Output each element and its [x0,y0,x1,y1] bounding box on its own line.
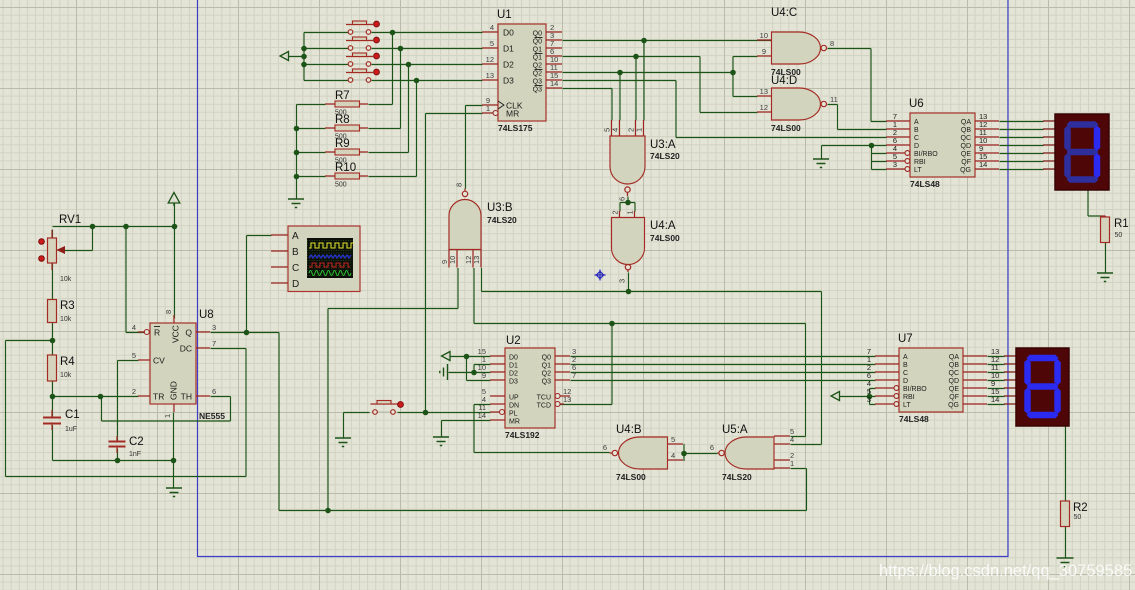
svg-text:TR: TR [153,392,164,402]
svg-text:R7: R7 [335,90,350,102]
svg-text:D3: D3 [503,76,514,86]
svg-text:VCC: VCC [171,325,181,343]
svg-text:3: 3 [618,279,627,283]
wire pulldown verticals to R7-R10 [369,33,417,177]
wire U1 MR to U2 PL [426,114,483,413]
svg-text:B: B [292,247,299,258]
wire U2 outputs to U7 ABCD [571,357,876,381]
svg-text:74LS48: 74LS48 [899,414,929,424]
svg-text:R10: R10 [335,162,356,174]
svg-text:D1: D1 [509,363,518,370]
svg-text:QA: QA [961,119,971,126]
svg-text:RBI: RBI [903,394,915,401]
wire net Q1B row56 to U3:A.2 and U4:D.12 [563,57,758,121]
input terminal arrow (U2 D0) [442,352,451,361]
svg-text:9: 9 [762,47,766,56]
svg-text:4: 4 [132,323,136,332]
svg-text:R3: R3 [60,300,75,312]
svg-text:TCU: TCU [537,395,551,402]
resistor R3 [48,300,75,324]
wire net Q0B row40 to U3:A.1 and U4:C.10 [563,41,772,121]
watermark [879,562,1132,580]
svg-text:12: 12 [760,103,768,112]
wire button2 to U2 PL [344,413,491,439]
sheet border [198,0,1009,557]
svg-text:14: 14 [991,395,999,404]
svg-text:10: 10 [448,256,457,264]
svg-text:13: 13 [563,395,571,404]
svg-text:U1: U1 [497,9,512,21]
svg-text:1: 1 [626,210,635,214]
svg-text:3: 3 [867,395,871,404]
svg-text:R2: R2 [1073,502,1088,514]
wire left rail TH sense [6,341,53,477]
wire 555 Q net to osc A and row510 [211,236,807,511]
potentiometer RV1 [39,214,81,283]
svg-text:5: 5 [671,435,675,444]
wire U7 arrow RBI BI LT [840,389,876,405]
svg-text:Q: Q [185,328,192,338]
svg-text:Q0: Q0 [533,31,542,38]
svg-text:U3:A: U3:A [650,139,676,151]
svg-text:U4:C: U4:C [771,7,797,19]
resistor R4 [48,355,76,381]
svg-text:TCD: TCD [537,403,551,410]
svg-text:B: B [903,362,908,369]
wire button outputs to U1 D0-D3 [372,33,483,81]
svg-text:74LS175: 74LS175 [498,123,533,133]
decoder U7 74LS48 [867,333,1000,424]
svg-text:4: 4 [671,451,675,460]
svg-text:D0: D0 [509,355,518,362]
svg-text:50: 50 [1115,232,1123,239]
svg-text:QF: QF [961,159,971,166]
svg-text:RV1: RV1 [59,214,81,226]
svg-text:R: R [154,328,160,338]
wire U4:C out to U6.A [828,49,887,122]
wire 555 DC to left rail [6,349,247,477]
svg-text:1nF: 1nF [129,451,141,458]
resistor R9 [325,138,368,165]
wire U4:D out to U6.B [828,105,887,130]
svg-text:LT: LT [903,402,911,409]
input terminal arrow left (buttons common) [280,52,289,61]
svg-text:Q3: Q3 [542,379,551,386]
svg-text:Q2: Q2 [533,63,542,70]
svg-text:QD: QD [961,143,972,150]
svg-text:D: D [903,378,908,385]
svg-text:10k: 10k [60,316,72,323]
svg-text:74LS192: 74LS192 [505,430,540,440]
svg-text:D2: D2 [509,371,518,378]
svg-text:Q3: Q3 [533,79,542,86]
svg-text:74LS20: 74LS20 [722,472,752,482]
svg-text:C: C [292,263,299,274]
svg-text:R1: R1 [1114,218,1129,230]
svg-text:D0: D0 [503,28,514,38]
svg-text:10k: 10k [60,276,72,283]
wire net Q2B row72 to U3:A.4 U4:C.9 U4:D.13 [563,57,758,121]
svg-text:UP: UP [509,395,519,402]
svg-text:D2: D2 [503,60,514,70]
svg-text:Q2: Q2 [533,71,542,78]
svg-text:50: 50 [1074,514,1082,521]
svg-text:500: 500 [335,182,347,189]
svg-text:U4:D: U4:D [771,75,797,87]
svg-text:6: 6 [212,387,216,396]
svg-text:Q1: Q1 [542,363,551,370]
svg-text:BI/RBO: BI/RBO [903,386,927,393]
svg-text:U3:B: U3:B [487,202,513,214]
svg-text:6: 6 [710,443,714,452]
wire U6 outputs to display1 [1000,122,1044,170]
svg-text:D: D [292,279,299,290]
svg-text:74LS48: 74LS48 [910,179,940,189]
svg-text:A: A [914,119,919,126]
resistor R2 [1061,501,1088,527]
nand gate U3:B 74LS20 [440,183,517,268]
svg-text:6: 6 [618,197,627,201]
svg-text:2: 2 [611,210,620,214]
nand gate U5:A 74LS20 mirrored [710,424,794,482]
svg-text:12: 12 [486,55,494,64]
svg-text:14: 14 [550,79,558,88]
latch U1 74LS175 [482,9,562,133]
wire U3:A out to U4:A inputs [620,197,635,212]
svg-text:3: 3 [212,323,216,332]
ground (R1) [1097,273,1113,282]
svg-text:R9: R9 [335,138,350,150]
wire U4:B out to U2 DN [474,405,610,453]
svg-text:A: A [903,354,908,361]
nand gate U4:A 74LS00 [611,210,681,283]
wire net Q3 row80 to U6.C [563,81,887,138]
svg-text:13: 13 [472,256,481,264]
nand gate U4:C 74LS00 [757,7,834,77]
svg-text:1: 1 [486,104,490,113]
wire RV1 body chain R3 R4 [52,230,54,397]
ground (R7-R10 rail) [288,199,304,208]
counter U2 74LS192 [478,335,577,440]
svg-text:U6: U6 [909,98,924,110]
svg-text:13: 13 [486,71,494,80]
nand gate U4:D 74LS00 [757,75,838,133]
wire U2 TCD to row323 net U3:B.12 U5:A.5 [474,268,806,437]
wire R7-R10 left rail to ground [297,105,326,200]
svg-text:1: 1 [635,128,644,132]
wire display1 to R1 to ground [1088,191,1106,274]
svg-text:14: 14 [979,160,987,169]
svg-text:7: 7 [572,371,576,380]
resistor R7 [325,90,368,117]
svg-text:C: C [903,370,908,377]
svg-text:R8: R8 [335,114,350,126]
ground (U6 D input) [813,159,829,168]
svg-text:QE: QE [949,386,959,393]
wire 555 TH to TR loop [102,397,231,422]
resistor R1 [1101,217,1129,243]
svg-text:LT: LT [914,167,922,174]
svg-text:3: 3 [893,160,897,169]
svg-text:MR: MR [509,419,520,426]
push button SW5 (load) [371,401,404,415]
svg-text:QE: QE [961,151,971,158]
svg-text:BI/RBO: BI/RBO [914,151,938,158]
wire 555 CV to C2 [118,361,139,442]
wire VCC rail RV1 R U8 [53,204,175,333]
svg-text:1uF: 1uF [65,426,77,433]
svg-text:Q1: Q1 [533,55,542,62]
svg-text:8: 8 [455,183,464,187]
svg-text:74LS20: 74LS20 [650,151,680,161]
timer U8 NE555 [132,309,225,421]
svg-text:8: 8 [830,39,834,48]
svg-text:8: 8 [164,310,173,314]
svg-text:74LS00: 74LS00 [616,472,646,482]
svg-text:1: 1 [163,414,172,418]
svg-text:Q3: Q3 [533,87,542,94]
wire U2 MR to ground [442,421,491,438]
ground rotated (U2 D1 D2) [440,364,448,380]
decoder U6 74LS48 [886,98,999,189]
red stub display1 to R1 [1101,216,1106,219]
svg-text:https://blog.csdn.net/qq_30759: https://blog.csdn.net/qq_30759585 [879,562,1132,580]
svg-text:R4: R4 [60,356,75,368]
wire U3:B output to U1 CLK [466,106,483,189]
svg-text:QB: QB [961,127,971,134]
svg-text:14: 14 [478,411,486,420]
svg-text:MR: MR [506,109,519,119]
svg-text:1: 1 [790,459,794,468]
svg-text:TH: TH [181,392,192,402]
svg-text:QC: QC [949,370,960,377]
svg-text:CV: CV [153,356,165,366]
svg-text:C1: C1 [65,409,80,421]
wire U4:A out row291 to U3:B.13 and U5:A.4 [482,268,822,445]
svg-text:74LS20: 74LS20 [487,215,517,225]
7-segment display 1 [1043,114,1109,190]
svg-text:C: C [914,135,919,142]
svg-text:10k: 10k [60,372,72,379]
capacitor C2 [109,436,144,458]
svg-text:RBI: RBI [914,159,926,166]
svg-text:4: 4 [611,128,620,132]
svg-text:11: 11 [830,95,838,104]
svg-text:QB: QB [949,362,959,369]
ground (U2 MR) [433,437,449,446]
svg-text:DN: DN [509,403,519,410]
svg-text:D3: D3 [509,379,518,386]
svg-text:74LS00: 74LS00 [771,123,801,133]
svg-text:5: 5 [132,351,136,360]
capacitor C1 [43,409,80,433]
svg-text:QA: QA [949,354,959,361]
7-segment display 2 [1004,348,1069,426]
ground (button PL) [335,438,351,447]
svg-text:5: 5 [490,39,494,48]
nand gate U3:A 74LS20 [603,120,681,201]
svg-text:D1: D1 [503,44,514,54]
svg-text:74LS00: 74LS00 [650,233,680,243]
svg-text:Q0: Q0 [542,355,551,362]
svg-text:Q2: Q2 [542,371,551,378]
svg-text:QC: QC [961,135,972,142]
wire U2 D0 D3 arrow [451,357,491,381]
svg-text:6: 6 [603,443,607,452]
oscilloscope [271,226,360,292]
svg-text:U4:A: U4:A [650,220,676,232]
wire net Q3B row88 to U3:A.5 [563,89,613,121]
resistor R8 [325,114,368,141]
wire U2 D1 D2 ground [449,365,491,373]
svg-text:PL: PL [509,411,518,418]
wire 555 TR net R4 C1 [53,397,174,489]
push button SW1 [346,21,379,34]
ground (R2) [1057,558,1074,567]
input terminal arrow (U7 RBI) [831,392,840,401]
svg-text:4: 4 [490,23,494,32]
nand gate U4:B 74LS00 mirrored [603,424,683,482]
wire U7 outputs to display2 [988,357,1005,405]
svg-text:10: 10 [760,31,768,40]
svg-text:U2: U2 [506,335,521,347]
ground (U8 GND pin) [166,488,182,497]
svg-text:Q0: Q0 [533,39,542,46]
svg-text:U8: U8 [199,309,214,321]
svg-text:Q1: Q1 [533,47,542,54]
svg-text:13: 13 [760,87,768,96]
svg-text:U7: U7 [898,333,913,345]
svg-text:QD: QD [949,378,960,385]
resistor R10 [325,162,368,189]
origin marker [595,270,606,281]
svg-text:QG: QG [948,402,959,409]
svg-text:2: 2 [132,387,136,396]
wire U6 D BI RBI LT ground [822,146,887,170]
svg-text:9: 9 [482,371,486,380]
push button SW4 [346,69,379,82]
svg-text:QG: QG [960,167,971,174]
wire button common rail [289,33,349,81]
power terminal VCC [168,193,180,207]
svg-text:A: A [292,231,299,242]
push button SW2 [346,37,379,50]
svg-text:7: 7 [212,339,216,348]
wire display2 to R2 to ground [1065,427,1067,559]
svg-text:C2: C2 [129,436,144,448]
wire U5:A out to U4:B inputs [684,445,718,461]
svg-text:D: D [914,143,919,150]
svg-text:DC: DC [180,344,192,354]
svg-text:4: 4 [790,435,794,444]
svg-text:U4:B: U4:B [616,424,642,436]
svg-text:B: B [914,127,919,134]
svg-text:GND: GND [169,381,179,400]
svg-text:QF: QF [949,394,959,401]
svg-text:U5:A: U5:A [722,424,748,436]
push button SW3 [346,53,379,66]
svg-text:NE555: NE555 [199,411,225,421]
